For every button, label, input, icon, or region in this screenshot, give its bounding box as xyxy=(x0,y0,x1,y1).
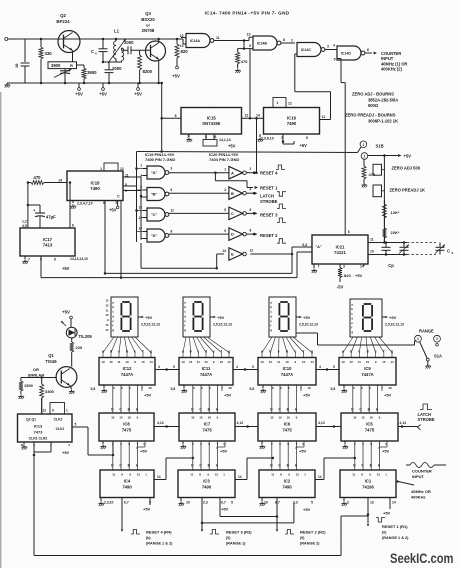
IC15 bottom pins xyxy=(187,134,217,146)
wire Q1 emitter ground xyxy=(70,386,72,390)
title text xyxy=(205,11,290,16)
resistor 470 S1B xyxy=(362,159,376,183)
wire rail to S1B xyxy=(137,147,362,153)
wires display 4 to decoder xyxy=(343,337,392,358)
label Q3 xyxy=(141,11,155,33)
label 2000 lower xyxy=(112,66,122,71)
ground under IC15 xyxy=(186,138,192,143)
IC5 bottom pins xyxy=(345,441,390,454)
IC IC7 7475 xyxy=(179,413,235,441)
IC20 B pin numbers xyxy=(224,188,251,192)
wire Q1 collector to IC13 xyxy=(41,398,43,414)
DCBA labels above latch 3 xyxy=(270,408,298,412)
wire left bus 2 xyxy=(140,177,143,239)
letter row above 7447 3 xyxy=(261,350,313,354)
IC IC18 7490 xyxy=(67,171,123,201)
resistor 3900 R trimmer box xyxy=(48,62,77,83)
label L1 xyxy=(114,29,120,34)
scan edge line xyxy=(0,92,2,568)
IC12 top pin numbers xyxy=(101,360,153,364)
IC IC3 7490 xyxy=(178,470,235,498)
ground under 1500 xyxy=(18,395,24,400)
inverter xyxy=(229,207,246,220)
IC IC9 7447A xyxy=(339,358,396,386)
wire vertical to inverter A output xyxy=(255,117,258,174)
resistor 3900 right xyxy=(82,65,97,83)
wire IC1 reset path xyxy=(341,498,369,556)
display 1 pin numbers xyxy=(105,299,109,332)
IC8 top pin numbers xyxy=(111,416,138,420)
ground under IC17 xyxy=(22,260,28,265)
IC3 bottom pins xyxy=(181,498,233,512)
inverter xyxy=(229,228,246,241)
IC13 bottom pins xyxy=(20,442,70,456)
ground xyxy=(4,83,10,88)
wire feedback to IC14B xyxy=(249,49,251,119)
ground under IC12 xyxy=(101,389,107,394)
wire IC18 pin5 down xyxy=(120,201,123,279)
switch S1A xyxy=(415,328,442,364)
display 1 +5V xyxy=(138,315,160,327)
ground under 470 xyxy=(235,69,241,74)
wires IC6 to counter xyxy=(272,441,304,470)
resistor 12K xyxy=(382,200,399,224)
potentiometer zero preadj xyxy=(373,185,425,197)
IC17 pin labels xyxy=(22,219,27,228)
IC1 bottom pins xyxy=(344,498,396,516)
label LATCH STROBE xyxy=(260,194,286,209)
label latch strobe right xyxy=(401,404,435,430)
wire Q1 base xyxy=(21,376,56,379)
NAND gate xyxy=(147,166,169,179)
label IC15 +5V pins xyxy=(219,138,236,149)
wire IC4 reset xyxy=(121,498,124,533)
IC10 top pin numbers xyxy=(260,360,314,364)
DCBA labels above latch 4 xyxy=(351,408,379,412)
LED TIL209 xyxy=(60,320,92,339)
capacitor Cx xyxy=(435,243,454,256)
wires IC12 to latch xyxy=(113,385,142,413)
IC20 D pin numbers xyxy=(224,229,251,233)
NAND gate xyxy=(147,188,169,201)
wire Q3 emitter xyxy=(157,59,160,84)
IC19 C pins xyxy=(138,206,174,221)
ground under IC21 xyxy=(311,269,317,274)
wire D gate to E input xyxy=(141,243,224,269)
IC IC4 7490 xyxy=(100,470,154,498)
label RESET 3 xyxy=(260,213,286,223)
inverter xyxy=(229,248,246,261)
IC9 bottom pins xyxy=(331,385,392,398)
transistor xyxy=(56,367,77,388)
ground under IC7 xyxy=(180,445,186,450)
label RESET 4 xyxy=(260,165,285,175)
ground under S1A xyxy=(425,364,431,369)
NAND gate xyxy=(253,36,281,50)
label Cp xyxy=(388,263,394,268)
IC IC2 7490 xyxy=(259,470,315,498)
wire IC19 D output to inverter xyxy=(169,233,229,235)
resistor 3900 xyxy=(77,65,85,68)
capacitor Cp 1 xyxy=(382,241,391,256)
7-segment display 3 xyxy=(269,297,296,337)
resistor 1500 xyxy=(19,378,34,395)
+5V LED supply xyxy=(62,310,72,328)
wire reset rail IC3 to IC2 pin 6,7 xyxy=(220,498,277,517)
IC9 top pin numbers xyxy=(341,360,394,364)
wire IC2 reset xyxy=(276,498,279,533)
label Q2 BF224 xyxy=(56,13,70,24)
ground under IC13 xyxy=(21,445,27,450)
NAND gate xyxy=(147,229,169,242)
wire master reset loop xyxy=(34,455,341,556)
wires IC9 to latch xyxy=(353,385,382,413)
resistor 3300 xyxy=(40,378,55,415)
wire IC16 pin11 feedback loop xyxy=(295,54,331,120)
wire Q3 collector xyxy=(157,38,160,43)
label counter input xyxy=(381,51,407,72)
IC IC16 7490 xyxy=(264,108,320,135)
NAND gate xyxy=(337,46,365,60)
wire IC19 B output to inverter xyxy=(169,192,229,194)
capacitor 18 xyxy=(14,39,30,83)
+5V terminal 1 xyxy=(75,83,83,97)
capacitor Cp 2 variable xyxy=(399,241,410,256)
ground under IC18 xyxy=(70,204,76,209)
IC6 top pin numbers xyxy=(270,416,297,420)
ground under IC11 xyxy=(181,389,187,394)
IC IC12 7447A xyxy=(99,358,155,386)
label RESET 1 R1 xyxy=(376,518,409,541)
7-segment display 2 xyxy=(183,297,210,337)
IC IC6 7475 xyxy=(258,413,316,441)
wire left bus 1 xyxy=(135,152,138,243)
wire IC19 C output to inverter xyxy=(169,212,229,214)
inverter xyxy=(229,166,246,179)
IC20 C pin numbers xyxy=(224,208,251,212)
wire RESET 1 xyxy=(214,171,258,189)
IC17 bottom pins xyxy=(25,256,88,271)
wire IC12 to IC11 xyxy=(155,365,179,371)
IC18 pins xyxy=(58,174,141,199)
ground under IC1 xyxy=(341,502,347,507)
label IC19 IC20 header xyxy=(145,152,239,162)
jumper above IC18 xyxy=(100,163,124,171)
IC16 bottom pins xyxy=(260,134,308,148)
letter row above 7447 1 xyxy=(102,350,152,354)
label RESET 2 R2 xyxy=(285,530,326,546)
ground under 470 S1B xyxy=(361,183,367,188)
+5V under 820 xyxy=(172,38,180,79)
wire E output xyxy=(250,253,292,255)
ground under IC16 xyxy=(257,138,263,143)
resistor 220 xyxy=(70,338,83,367)
7-segment display 4 xyxy=(350,299,382,337)
+5V terminal 2 xyxy=(99,83,107,97)
DCBA labels above counter 3 xyxy=(270,464,298,468)
resistor 8200 xyxy=(138,50,153,83)
DCBA labels above counter 2 xyxy=(191,464,219,468)
IC IC17 7413 xyxy=(20,228,75,256)
wires IC8 to counter xyxy=(113,441,145,470)
DCBA labels above counter 1 xyxy=(111,464,139,468)
ground under IC5 xyxy=(342,445,348,450)
IC IC11 7447A xyxy=(179,358,233,386)
IC20 E pin numbers xyxy=(222,248,253,252)
resistor 470 horizontal xyxy=(27,175,72,185)
wires display 3 to decoder xyxy=(262,337,312,358)
IC8 bottom pins xyxy=(103,441,148,454)
IC19 A pins xyxy=(140,164,172,179)
wire bottom rail xyxy=(7,82,163,84)
ground under IC9 xyxy=(341,389,347,394)
IC19 B pins xyxy=(140,185,172,200)
7-segment display 1 xyxy=(111,297,138,337)
DCBA labels above latch 1 xyxy=(111,408,139,412)
ground under IC8 xyxy=(100,445,106,450)
wire IC18 outputs to bus xyxy=(123,177,141,186)
IC2 bottom pins xyxy=(262,498,313,513)
wire IC14B pin9 feedback xyxy=(238,41,253,50)
IC IC5 7475 xyxy=(341,413,398,441)
wire bus to IC21 pin4 xyxy=(41,243,312,278)
IC13 labels xyxy=(26,417,65,440)
wire IC19 A output to inverter xyxy=(169,172,229,174)
wire top rail xyxy=(5,38,181,41)
wire IC3 to IC2 carry xyxy=(235,457,274,480)
wire Q2 emitter xyxy=(72,51,74,62)
IC10 bottom pins xyxy=(250,385,311,398)
ground under IC6 xyxy=(259,445,265,450)
watermark SeekIC.com xyxy=(390,551,454,566)
label -5V xyxy=(337,284,344,289)
NAND IC14A xyxy=(186,34,214,48)
label RESET 2 xyxy=(260,233,286,243)
wire inverter C output xyxy=(246,212,257,215)
wire inverter B output xyxy=(246,192,257,195)
wire IC17 pin6 up xyxy=(70,183,74,229)
ground under IC3 xyxy=(178,502,184,507)
capacitor 47uF xyxy=(27,183,56,229)
wire bus stubs xyxy=(137,169,148,239)
wires display 2 to decoder xyxy=(183,337,229,358)
IC11 top pin numbers xyxy=(181,360,231,364)
wire latch strobe right xyxy=(398,421,418,426)
label RESET 1 xyxy=(260,185,286,196)
IC IC8 7475 xyxy=(99,413,154,441)
transistor xyxy=(58,31,80,53)
wire IC13 clk to latches xyxy=(88,441,114,456)
IC4 bottom pins xyxy=(101,498,151,512)
wire IC14A output xyxy=(214,36,249,42)
IC18 bottom pins xyxy=(73,201,119,213)
DCBA labels above counter 4 xyxy=(353,464,381,468)
label zero adj bourns annotation xyxy=(345,92,398,124)
wire zero adj chain xyxy=(383,156,385,243)
transistor xyxy=(146,41,166,61)
ground under IC10 xyxy=(260,389,266,394)
wire IC1 counter input xyxy=(396,480,414,485)
wire IC15 pin8 feed xyxy=(160,82,181,152)
wire IC14B output xyxy=(281,38,295,43)
wires display 1 to decoder xyxy=(103,337,151,358)
wire latch strobe 2 xyxy=(235,421,258,428)
ground input left xyxy=(6,83,8,84)
wire IC14C output xyxy=(325,43,337,49)
display 3 +5V xyxy=(296,315,318,327)
IC21 right pins and caps xyxy=(368,238,436,255)
wire C0 bottom xyxy=(102,61,122,64)
label RESET 3 R3 xyxy=(210,530,252,546)
wire IC14D pin5 to IC21 xyxy=(334,57,350,235)
IC IC1 74196 xyxy=(340,470,396,498)
wires IC7 to counter xyxy=(193,441,225,470)
capacitor 2000 series xyxy=(122,40,151,54)
wire latch strobe 1 xyxy=(154,421,179,428)
wire latch strobe 3 xyxy=(316,421,341,428)
IC IC13 7473 xyxy=(18,414,73,442)
inverter xyxy=(229,187,246,200)
IC4 top pin numbers xyxy=(112,473,147,477)
wire IC3 reset xyxy=(201,498,204,533)
label C0 xyxy=(91,49,97,56)
IC2 top pin numbers xyxy=(271,473,306,477)
capacitor 2000 lower xyxy=(105,62,114,83)
label RESET 4 R4 xyxy=(131,530,173,546)
display 4 +5V xyxy=(382,315,404,327)
wire reset rail IC3 to IC2 pin 2,3 xyxy=(202,503,294,523)
wire IC18 pin6 down xyxy=(104,201,107,275)
IC14A input pins xyxy=(180,34,186,48)
wire bus to IC21 pin3 xyxy=(105,247,312,273)
IC12 bottom pins xyxy=(91,385,152,398)
capacitor C0 xyxy=(0,0,108,62)
IC21 A label xyxy=(315,245,322,249)
IC1 top pin numbers xyxy=(352,473,387,477)
label counter input right xyxy=(406,463,446,500)
label Q1 xyxy=(28,353,57,378)
IC20 A pin numbers xyxy=(224,167,251,171)
IC11 bottom pins xyxy=(171,385,232,398)
ground under Q1 xyxy=(69,390,75,395)
ground under IC2 xyxy=(259,502,265,507)
wire to range switch xyxy=(296,333,416,345)
wire IC11 to IC10 xyxy=(233,365,258,371)
inductor L1 xyxy=(108,38,127,63)
IC5 top pin numbers xyxy=(353,416,380,420)
IC13 pin5 wire xyxy=(72,423,88,456)
DCBA labels above latch 2 xyxy=(191,408,219,412)
display 2 +5V xyxy=(210,315,232,327)
IC19 D pins xyxy=(138,227,172,242)
junction dots bottom rail xyxy=(40,38,141,85)
IC7 bottom pins xyxy=(183,441,228,454)
wires IC5 to counter xyxy=(355,441,387,470)
NAND gate xyxy=(147,208,169,221)
wire IC2 to IC1 carry xyxy=(315,457,356,480)
wire to IC14B pin10 xyxy=(247,33,253,41)
IC IC15 SN74196 xyxy=(181,108,242,135)
IC3 top pin numbers xyxy=(190,473,225,477)
+5V terminal 3 xyxy=(134,83,142,97)
switch S1B xyxy=(360,141,384,159)
jumper above IC16 xyxy=(273,98,292,108)
wire IC10 to IC9 xyxy=(316,365,339,371)
IC21 bottom pins xyxy=(314,264,364,269)
wire inverter A output xyxy=(246,171,257,174)
IC IC21 74121 xyxy=(312,235,368,264)
IC7 top pin numbers xyxy=(191,416,218,420)
letter row above 7447 4 xyxy=(342,350,393,354)
wire IC4 to IC3 carry xyxy=(154,457,194,480)
ground under IC4 xyxy=(98,502,104,507)
NAND gate xyxy=(297,43,325,57)
IC IC10 7447A xyxy=(258,358,316,386)
resistor 820 IC21 xyxy=(338,268,363,283)
IC6 bottom pins xyxy=(262,441,307,454)
wire inverter D output xyxy=(246,233,257,236)
resistor 470 top xyxy=(236,49,249,68)
potentiometer zero adj xyxy=(373,164,421,175)
resistor 330 xyxy=(39,39,52,83)
resistor 22K xyxy=(382,224,399,243)
resistor 820 xyxy=(175,39,188,62)
jumper above IC13 xyxy=(42,403,68,415)
wires IC10 to latch xyxy=(272,385,301,413)
wires IC11 to latch xyxy=(193,385,222,413)
wire IC15 to IC16 xyxy=(242,114,264,120)
letter row above 7447 2 xyxy=(182,350,230,354)
wire S1B to +5V xyxy=(368,153,412,158)
wire counter output arrow xyxy=(365,48,377,55)
